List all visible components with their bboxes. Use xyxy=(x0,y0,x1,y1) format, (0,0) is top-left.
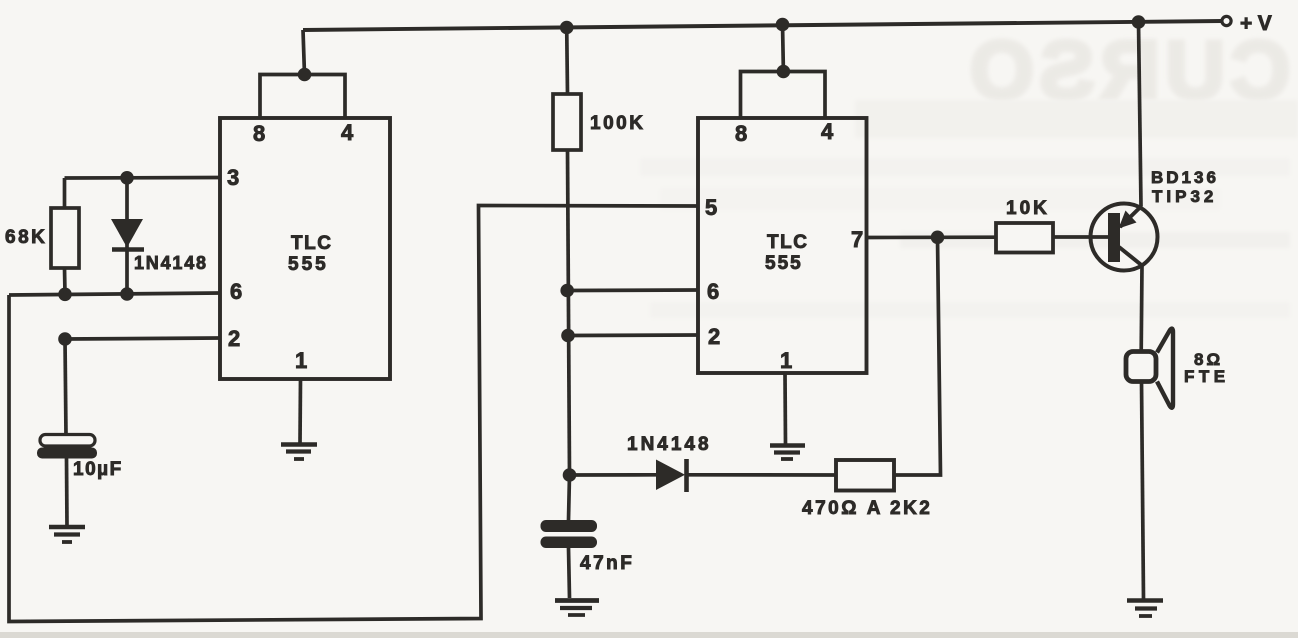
junction pin6/diode xyxy=(120,287,134,301)
ground below U1 pin1 xyxy=(281,445,317,460)
svg-text:7: 7 xyxy=(851,227,863,252)
wire U1 pin 3 xyxy=(65,176,221,180)
ground below speaker xyxy=(1127,601,1163,617)
wire U2 pin 2 xyxy=(568,333,698,337)
wire timing node to D2 xyxy=(570,473,657,477)
junction U2 pin6 xyxy=(560,284,574,298)
svg-text:BD136: BD136 xyxy=(1151,168,1219,187)
junction pin6/68K xyxy=(58,288,72,302)
pin 4 label U1 xyxy=(341,120,354,145)
wire R2 down to timing node xyxy=(568,150,570,475)
svg-text:6: 6 xyxy=(707,279,719,304)
wire U1 pins 8-4 tie bar xyxy=(260,75,345,119)
wire pin2 node down to C1 xyxy=(65,339,66,436)
junction diode node xyxy=(563,468,577,482)
label 10K xyxy=(1006,198,1050,219)
junction U2 supply on rail xyxy=(776,18,790,32)
wire speaker to ground xyxy=(1142,382,1144,600)
svg-text:1N4148: 1N4148 xyxy=(627,434,712,455)
svg-text:555: 555 xyxy=(765,253,803,274)
label 100K xyxy=(590,113,645,134)
wire diode node down to C2 xyxy=(569,475,570,520)
svg-text:47nF: 47nF xyxy=(580,553,634,574)
ground below C2 xyxy=(555,601,599,616)
label 68K xyxy=(5,227,47,248)
wire U2 pin 6 xyxy=(567,288,698,292)
label 1N4148 D1 xyxy=(134,253,208,273)
wire C2 to ground xyxy=(569,548,570,598)
label 47nF xyxy=(580,553,634,574)
pin 6 label U2 xyxy=(707,279,719,304)
capacitor C1 10uF xyxy=(37,435,97,459)
svg-text:4: 4 xyxy=(341,120,354,145)
junction pin2/cap branch xyxy=(58,332,72,346)
wire +V rail to Q1 emitter xyxy=(1139,22,1142,207)
svg-text:555: 555 xyxy=(288,254,329,275)
label 10uF xyxy=(73,459,123,480)
wire U1 tie bar to +V rail xyxy=(303,30,305,75)
junction U2 pin2 xyxy=(561,329,575,343)
label 470ohm A 2K2 xyxy=(802,498,932,519)
ground below C1 xyxy=(49,527,85,542)
svg-text:10µF: 10µF xyxy=(73,459,123,480)
capacitor C2 47nF xyxy=(541,520,598,548)
junction on U2 tie bar xyxy=(777,65,791,79)
diode D1 1N4148 xyxy=(111,178,144,294)
resistor R1 68K xyxy=(51,178,79,294)
junction emitter on rail xyxy=(1132,15,1146,29)
wire U1 pin 1 to ground xyxy=(298,379,302,444)
pin 5 label U2 xyxy=(705,195,717,220)
svg-text:100K: 100K xyxy=(590,113,645,134)
resistor R3 470ohm xyxy=(836,460,894,491)
ground below U2 pin1 xyxy=(770,446,805,460)
wire Q1 collector to speaker xyxy=(1139,266,1144,352)
svg-text:TLC: TLC xyxy=(291,233,332,254)
wire feedback loop U2 pin5 to U1 pin6 node xyxy=(9,206,698,622)
speaker LS1 xyxy=(1126,329,1173,408)
svg-text:TLC: TLC xyxy=(767,232,808,253)
svg-text:5: 5 xyxy=(705,195,717,220)
label 8ohm FTE xyxy=(1184,350,1230,386)
pin 1 label U2 xyxy=(780,348,792,373)
pin 2 label U1 xyxy=(228,326,240,351)
svg-text:+V: +V xyxy=(1240,12,1277,35)
wire U1 pin 6 node xyxy=(9,293,220,295)
wire R4 to Q1 base xyxy=(1053,235,1108,239)
wire U2 tie bar to +V rail xyxy=(781,23,786,72)
label BD136 TIP32 xyxy=(1151,168,1219,206)
junction rail/R2 xyxy=(560,21,574,35)
pin 3 label U1 xyxy=(227,165,239,190)
pin 8 label U1 xyxy=(253,121,265,146)
svg-text:2: 2 xyxy=(228,326,240,351)
wire C1 to ground xyxy=(65,459,69,528)
svg-text:6: 6 xyxy=(230,279,242,304)
diode D2 1N4148 xyxy=(656,459,687,492)
label 1N4148 D2 xyxy=(627,434,712,455)
wire R3 up to pin7 node xyxy=(894,237,941,475)
svg-text:TIP32: TIP32 xyxy=(1152,187,1217,206)
svg-text:4: 4 xyxy=(821,119,834,144)
resistor R4 10K xyxy=(996,223,1053,253)
pin 8 label U2 xyxy=(735,121,747,146)
wire D2 to R3 xyxy=(687,473,836,477)
wire U2 pins 8-4 tie bar xyxy=(741,72,826,119)
svg-text:10K: 10K xyxy=(1006,198,1050,219)
transistor Q1 BD136/TIP32 xyxy=(1091,204,1158,271)
wire +V rail to R2 xyxy=(565,27,569,94)
resistor R2 100K xyxy=(553,94,581,150)
svg-text:470Ω A 2K2: 470Ω A 2K2 xyxy=(802,498,932,519)
wire U2 pin 1 to ground xyxy=(783,373,787,444)
svg-text:2: 2 xyxy=(708,324,720,349)
junction on U1 tie bar xyxy=(298,68,312,82)
svg-text:1: 1 xyxy=(295,348,307,373)
svg-text:8: 8 xyxy=(735,121,747,146)
svg-text:1N4148: 1N4148 xyxy=(134,253,208,273)
IC U1 TLC555 body xyxy=(220,118,390,379)
IC U2 TLC555 body xyxy=(698,118,867,373)
svg-text:8: 8 xyxy=(253,121,265,146)
wire +V supply rail xyxy=(303,21,1222,30)
junction pin7 node xyxy=(931,231,945,245)
pin 2 label U2 xyxy=(708,324,720,349)
pin 7 label U2 xyxy=(851,227,863,252)
pin 6 label U1 xyxy=(230,279,242,304)
svg-text:3: 3 xyxy=(227,165,239,190)
wire U2 pin 7 to R4 xyxy=(867,235,997,239)
junction pin3/diode xyxy=(120,171,134,185)
terminal +V xyxy=(1222,12,1277,35)
svg-text:68K: 68K xyxy=(5,227,47,248)
pin 1 label U1 xyxy=(295,348,307,373)
svg-text:FTE: FTE xyxy=(1184,367,1230,386)
pin 4 label U2 xyxy=(821,119,834,144)
svg-text:1: 1 xyxy=(780,348,792,373)
wire U1 pin 2 xyxy=(65,338,221,339)
